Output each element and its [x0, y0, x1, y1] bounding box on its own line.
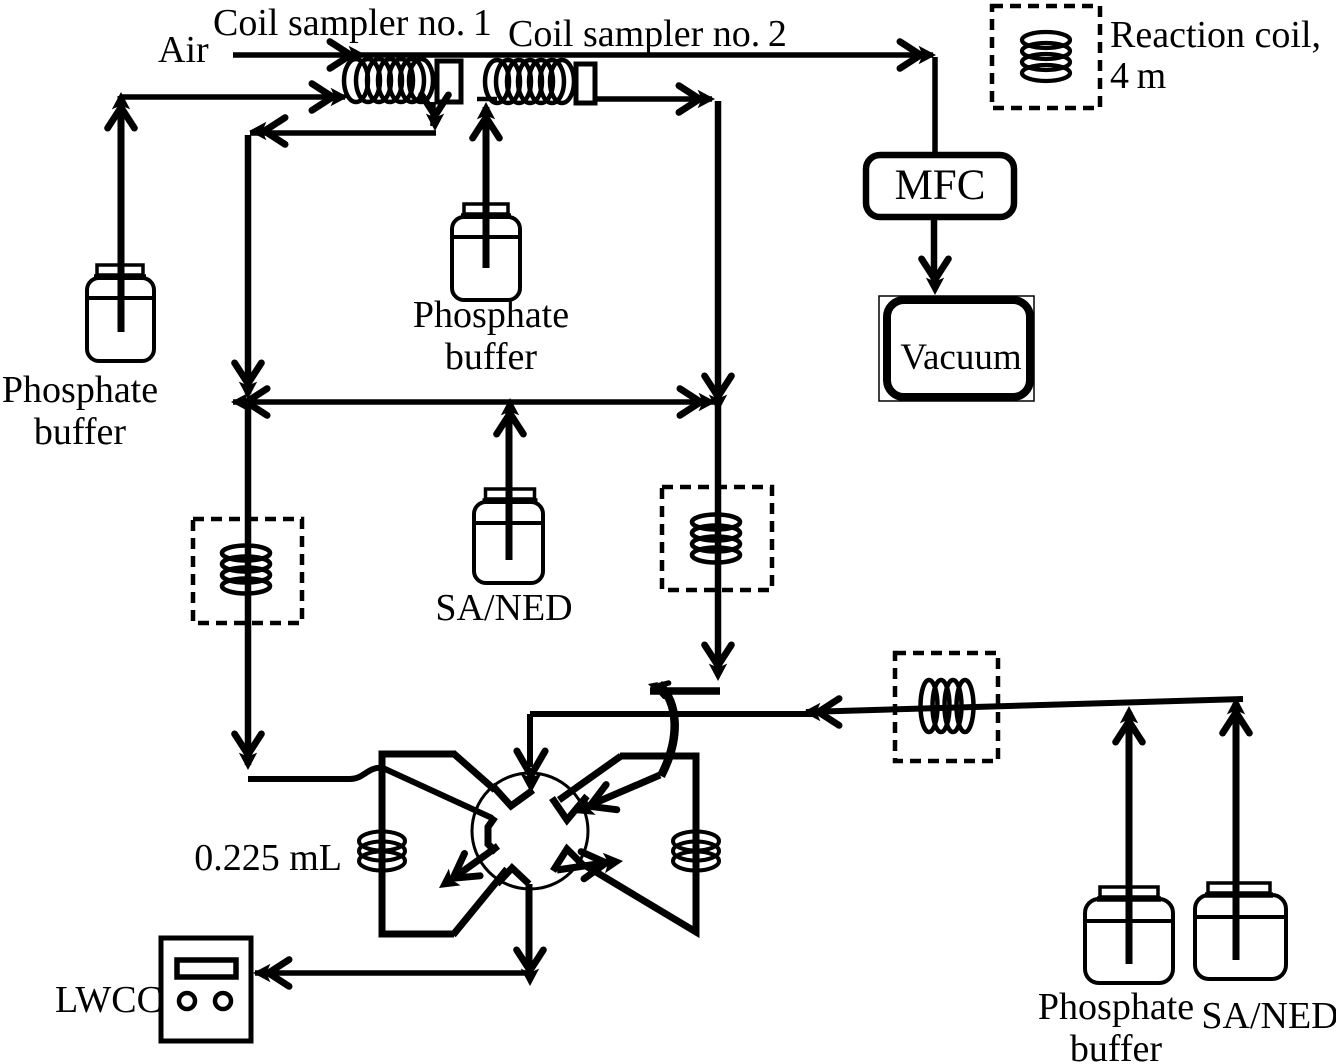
wire riser SA/NED bottom: [1233, 703, 1240, 960]
valve port upper-left: [492, 785, 533, 806]
svg-text:Vacuum: Vacuum: [900, 337, 1021, 378]
valve waste arrow shaft: [448, 846, 498, 882]
sample loop coil right: [673, 832, 719, 871]
LWCC display: [177, 960, 236, 977]
wire junction row: [233, 399, 714, 405]
wire jog right column to hose: [650, 687, 720, 695]
bottle phosphate buffer left: [87, 265, 154, 361]
wire riser from left phosphate bottle: [118, 96, 125, 332]
bottle phosphate buffer middle: [452, 204, 520, 300]
svg-text:buffer: buffer: [1070, 1028, 1162, 1064]
LWCC knob left: [179, 993, 195, 1009]
coil dashed box feed: [895, 653, 998, 761]
arrow jog: [648, 682, 669, 696]
valve port upper-right: [552, 796, 587, 820]
valve left loop bottom diagonal: [453, 869, 507, 935]
svg-text:buffer: buffer: [445, 336, 537, 378]
wire MFC to vacuum: [931, 217, 938, 283]
wire long feed from reagent bottles: [806, 699, 1243, 712]
coil right column: [692, 515, 740, 563]
arrow up from left bottle: [108, 92, 135, 128]
svg-text:SA/NED: SA/NED: [1201, 995, 1336, 1037]
reaction coil symbol: [1022, 32, 1070, 81]
bottle SA/NED middle: [474, 489, 543, 583]
arrow up phosphate bottom: [1116, 706, 1143, 742]
svg-text:Phosphate: Phosphate: [413, 294, 569, 336]
arrow left column into junction: [235, 363, 262, 399]
wire sampler 2 outlet: [597, 96, 712, 102]
MFC box: [866, 155, 1014, 217]
wire riser middle phosphate bottle: [483, 107, 490, 268]
arrow left column at valve: [235, 734, 262, 770]
svg-text:Reaction coil,: Reaction coil,: [1110, 14, 1321, 56]
LWCC detector box: [161, 938, 251, 1041]
arrow up into coil 2: [473, 102, 500, 138]
coil sampler no.2 coil: [485, 60, 574, 103]
valve port left: [488, 817, 496, 852]
bottle SA/NED bottom: [1195, 883, 1286, 979]
valve right loop: [586, 756, 696, 932]
svg-text:LWCC: LWCC: [55, 979, 162, 1021]
svg-text:Phosphate: Phosphate: [2, 369, 158, 411]
arrow into vacuum: [922, 259, 949, 295]
arrow air into coil 1: [330, 42, 366, 69]
arrow valve waste out: [439, 854, 480, 889]
svg-text:SA/NED: SA/NED: [435, 587, 572, 629]
valve left loop top diagonal: [453, 753, 495, 790]
wire riser SA/NED middle: [506, 407, 513, 560]
reaction coil dashed box: [992, 6, 1100, 108]
wire left inlet into valve: [248, 768, 492, 818]
wire valve top drop: [527, 714, 533, 767]
valve left loop square: [382, 754, 456, 934]
valve inlet arrow shaft: [588, 775, 660, 806]
wire left column upper: [245, 135, 252, 394]
arrow into LWCC: [253, 960, 289, 987]
wire left column lower: [245, 402, 252, 765]
arrow right column bottom: [705, 645, 732, 681]
valve rotor circle: [472, 773, 588, 889]
wire down to MFC: [932, 57, 938, 156]
valve port bottom: [497, 868, 529, 884]
wire riser phosphate bottom: [1126, 712, 1133, 964]
wire valve bottom drop: [526, 884, 533, 972]
arrow to left column: [249, 118, 285, 145]
arrow down at right junction: [705, 376, 732, 412]
arrow coil 1 drop: [422, 95, 449, 131]
valve port lower-right: [553, 849, 585, 871]
wire coil 1 drop: [430, 102, 436, 126]
arrow sampler 2 outlet: [679, 86, 715, 113]
vacuum box: [887, 300, 1030, 397]
arrow into valve top port: [517, 751, 545, 793]
svg-text:MFC: MFC: [895, 162, 986, 209]
wire air top line: [233, 52, 933, 58]
valve right loop top diagonal: [559, 756, 621, 800]
svg-text:4 m: 4 m: [1110, 55, 1166, 97]
coil dashed box left: [193, 519, 302, 623]
arrow into valve upper-right: [574, 785, 617, 815]
wire into valve top: [530, 711, 812, 717]
arrow junction right: [680, 389, 716, 416]
arrow up SA/NED bottom: [1223, 697, 1250, 733]
wire right column upper: [715, 101, 722, 398]
coil feed: [921, 680, 974, 732]
svg-text:0.225 mL: 0.225 mL: [194, 837, 342, 879]
sample loop coil left: [359, 832, 405, 871]
arrow up from SA/NED: [497, 398, 524, 434]
coil dashed box right: [662, 487, 772, 590]
vacuum outer frame: [879, 296, 1034, 401]
svg-text:Coil sampler no. 2: Coil sampler no. 2: [508, 13, 787, 55]
coil sampler no.1 fitting: [437, 61, 461, 102]
coil sampler no.2 fitting: [576, 64, 595, 103]
wire to LWCC: [255, 970, 529, 976]
coil sampler no.1 coil: [344, 59, 433, 102]
wire stub between samplers: [477, 97, 497, 102]
wire buffer feed to coil 1: [121, 94, 345, 100]
svg-text:Air: Air: [158, 29, 209, 71]
arrow valve bottom: [517, 950, 544, 986]
wire coil 1 to left column: [250, 130, 436, 136]
arrow feed into valve line: [803, 699, 839, 726]
bottle phosphate bottom: [1085, 887, 1173, 983]
wire right column lower: [715, 402, 722, 668]
arrow junction left: [231, 389, 267, 416]
svg-text:buffer: buffer: [34, 411, 126, 453]
hose curve to valve: [659, 684, 675, 776]
arrow into MFC drop: [900, 42, 936, 69]
svg-text:Phosphate: Phosphate: [1038, 986, 1194, 1028]
arrow buffer into coil 1: [312, 84, 348, 111]
arrow out valve lower-right: [581, 852, 623, 879]
coil left column: [222, 546, 270, 594]
svg-text:Coil sampler no. 1: Coil sampler no. 1: [213, 2, 492, 44]
LWCC knob right: [215, 993, 231, 1009]
valve outlet arrow shaft: [557, 863, 604, 870]
